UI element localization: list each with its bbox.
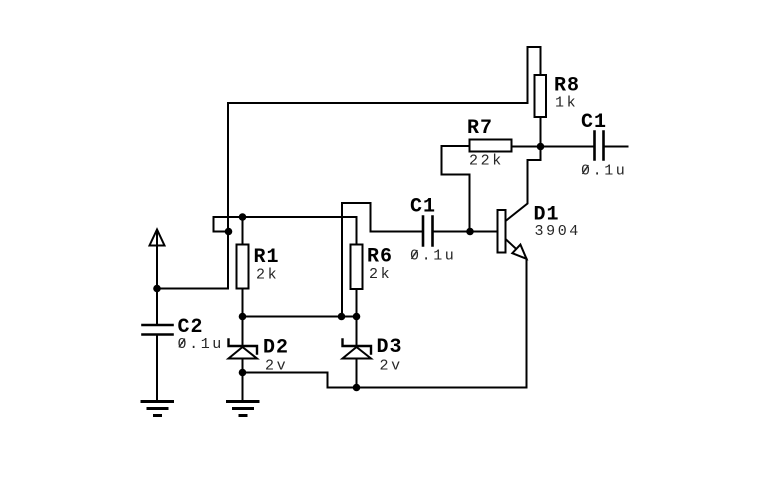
wire D3 cathode lead <box>356 317 358 346</box>
node C1 branch <box>338 313 346 321</box>
wire R7 left jog down to base node <box>442 146 470 232</box>
svg-text:D2: D2 <box>263 337 289 360</box>
wire branch from node to C1 <box>342 203 371 317</box>
wire output stub <box>604 146 628 148</box>
svg-text:C1: C1 <box>581 111 607 134</box>
svg-text:R1: R1 <box>254 246 280 269</box>
wire R1 top lead <box>242 217 244 245</box>
capacitor C1 (output) <box>595 132 604 160</box>
capacitor C1 (coupling) <box>423 217 433 246</box>
svg-text:D3: D3 <box>377 336 403 359</box>
slashed zero (C2 value) <box>179 339 185 348</box>
resistor R1 <box>237 245 249 289</box>
wire left vertical <box>227 103 229 289</box>
wire R8 bottom lead <box>540 117 542 147</box>
wire row y217 to R6 top <box>214 217 357 245</box>
wire row y316 <box>243 316 357 318</box>
svg-text:2k: 2k <box>369 266 392 283</box>
svg-text:2k: 2k <box>256 267 279 284</box>
svg-text:3904: 3904 <box>535 223 581 240</box>
wire jog left of crossing <box>214 217 229 232</box>
wire C2 bottom lead <box>156 335 158 402</box>
node jog junction <box>225 228 233 236</box>
resistor R7 <box>470 140 512 152</box>
node D2 anode <box>239 369 247 377</box>
wire D2 anode branch to bottom row <box>243 373 328 388</box>
zener D2 <box>229 340 258 402</box>
node collector / R8 <box>537 143 545 151</box>
transistor D1 <box>498 147 541 388</box>
zener D3 <box>343 340 372 388</box>
wire R6 bottom lead <box>356 289 358 317</box>
slashed zero (C1 output value) <box>582 165 588 174</box>
wire left horizontal <box>157 288 228 290</box>
svg-text:C1: C1 <box>410 196 436 219</box>
resistor R6 <box>351 245 363 290</box>
wire bottom row <box>328 387 527 389</box>
node R6 bottom / D3 <box>353 313 361 321</box>
svg-text:22k: 22k <box>469 153 504 170</box>
wire collector node row <box>512 146 595 148</box>
wire R1 bottom lead <box>242 289 244 317</box>
wire antenna stem <box>156 230 158 325</box>
capacitor C2 <box>143 325 173 335</box>
wire base row <box>433 231 498 233</box>
wire top horizontal <box>228 102 528 104</box>
node base <box>466 228 474 236</box>
svg-text:1k: 1k <box>555 95 578 112</box>
node D3 anode <box>353 384 361 392</box>
ground (middle) <box>228 402 259 416</box>
node R1 bottom / D2 <box>239 313 247 321</box>
node R1 top <box>239 213 247 221</box>
slashed zero (C1 coupling value) <box>411 250 417 259</box>
wire D2 cathode lead <box>242 317 244 346</box>
wire riser to R8 top <box>528 47 541 103</box>
node antenna/C2 <box>153 285 161 293</box>
resistor R8 <box>535 75 547 117</box>
ground (left) <box>142 402 173 416</box>
antenna arrow symbol <box>150 230 165 246</box>
svg-text:2v: 2v <box>265 358 288 375</box>
wire C1 left lead <box>371 231 424 233</box>
svg-text:R7: R7 <box>467 117 493 140</box>
svg-text:2v: 2v <box>380 358 403 375</box>
